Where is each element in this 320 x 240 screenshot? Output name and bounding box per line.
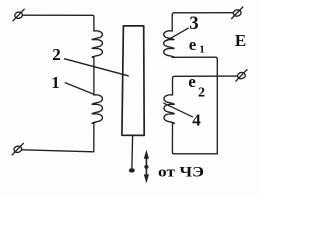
leader line for label 3 to coil xyxy=(166,28,188,41)
svg-text:от ЧЭ: от ЧЭ xyxy=(158,165,204,181)
svg-text:e: e xyxy=(189,35,197,54)
wire e1 loop bottom to right side down xyxy=(172,57,217,154)
motion double arrow from sensing element xyxy=(144,150,149,184)
svg-text:1: 1 xyxy=(51,73,60,92)
wire secondary lower loop: top side to middle terminal xyxy=(173,76,238,95)
svg-text:e: e xyxy=(188,72,196,91)
core (2) movable plunger rectangle xyxy=(122,26,144,136)
wire top-left horizontal to winding xyxy=(22,15,94,31)
wire between left coils xyxy=(93,57,95,95)
svg-text:3: 3 xyxy=(189,14,198,34)
label e2 xyxy=(188,72,205,101)
secondary winding coil (4) xyxy=(164,95,174,124)
wire secondary top loop: top side to terminal xyxy=(172,13,233,31)
svg-text:1: 1 xyxy=(199,44,205,56)
primary winding upper coil (1) xyxy=(92,31,102,57)
terminal top-right xyxy=(232,7,243,19)
leader line for label 4 to coil xyxy=(164,103,193,117)
core stem rod xyxy=(131,136,134,169)
leader line for label 1 to primary winding xyxy=(65,83,93,94)
terminal bottom-left xyxy=(12,143,23,155)
terminal top-left xyxy=(13,9,24,21)
core stem end blob xyxy=(129,168,135,172)
primary winding lower coil (1) xyxy=(92,95,102,124)
wire bottom-left to terminal xyxy=(22,123,94,151)
svg-text:E: E xyxy=(235,31,246,50)
svg-text:2: 2 xyxy=(52,45,61,64)
svg-text:4: 4 xyxy=(192,111,201,130)
secondary winding coil (3) xyxy=(164,31,174,57)
terminal middle-right xyxy=(236,70,247,82)
wire e2 loop left side and bottom xyxy=(172,123,217,153)
leader line for label 2 to core xyxy=(65,59,129,76)
svg-text:2: 2 xyxy=(198,86,205,101)
label e1 xyxy=(189,35,205,56)
